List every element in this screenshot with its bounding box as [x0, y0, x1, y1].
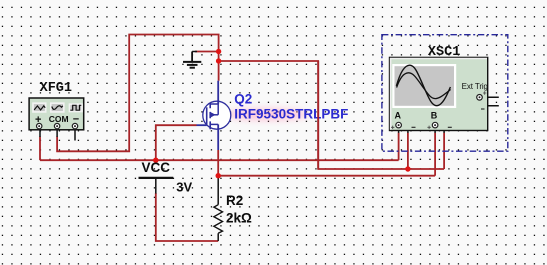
svg-text:Q2: Q2	[234, 92, 252, 107]
svg-text:XFG1: XFG1	[40, 81, 72, 96]
svg-text:Ext Trig: Ext Trig	[462, 82, 488, 91]
svg-text:2kΩ: 2kΩ	[226, 211, 252, 226]
svg-text:B: B	[431, 111, 438, 121]
svg-text:3V: 3V	[176, 179, 192, 194]
svg-text:A: A	[395, 111, 402, 121]
svg-text:IRF9530STRLPBF: IRF9530STRLPBF	[234, 106, 348, 121]
svg-text:VCC: VCC	[142, 160, 171, 175]
svg-text:XSC1: XSC1	[428, 45, 460, 60]
svg-text:COM: COM	[49, 114, 69, 124]
svg-text:R2: R2	[226, 193, 243, 208]
